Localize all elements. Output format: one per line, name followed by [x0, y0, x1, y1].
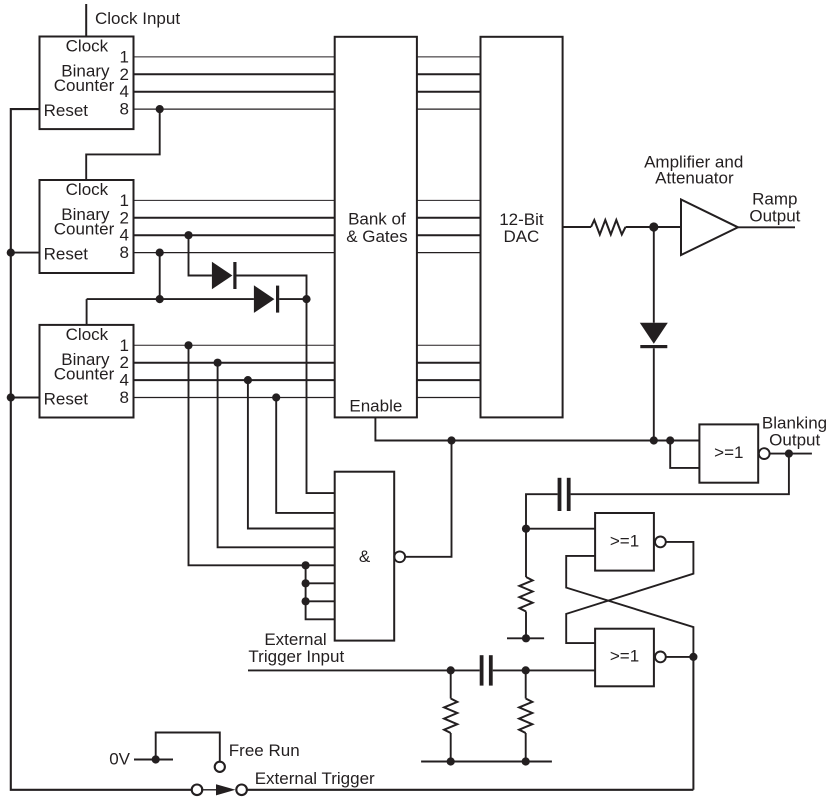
- svg-text:Output: Output: [769, 431, 820, 450]
- svg-text:12-Bit: 12-Bit: [499, 210, 544, 229]
- svg-text:1: 1: [120, 191, 129, 210]
- svg-text:DAC: DAC: [503, 227, 539, 246]
- svg-text:Enable: Enable: [349, 397, 402, 416]
- svg-text:>=1: >=1: [714, 443, 743, 462]
- svg-text:Clock: Clock: [66, 180, 109, 199]
- svg-text:Attenuator: Attenuator: [655, 169, 734, 188]
- svg-text:Free Run: Free Run: [229, 741, 300, 760]
- svg-text:Trigger Input: Trigger Input: [248, 647, 344, 666]
- svg-text:8: 8: [120, 243, 129, 262]
- svg-text:Reset: Reset: [44, 390, 89, 409]
- svg-text:8: 8: [120, 99, 129, 118]
- svg-text:External: External: [264, 630, 326, 649]
- svg-text:Counter: Counter: [54, 76, 115, 95]
- svg-text:2: 2: [120, 353, 129, 372]
- svg-text:Counter: Counter: [54, 220, 115, 239]
- svg-text:&: &: [359, 547, 371, 566]
- svg-text:1: 1: [120, 47, 129, 66]
- svg-text:Ramp: Ramp: [752, 189, 797, 208]
- svg-text:0V: 0V: [109, 750, 130, 769]
- svg-text:Clock Input: Clock Input: [95, 9, 180, 28]
- svg-text:4: 4: [120, 82, 129, 101]
- svg-text:2: 2: [120, 65, 129, 84]
- svg-text:Output: Output: [749, 207, 800, 226]
- svg-text:Clock: Clock: [66, 325, 109, 344]
- svg-text:Reset: Reset: [44, 101, 89, 120]
- svg-text:8: 8: [120, 388, 129, 407]
- svg-text:4: 4: [120, 226, 129, 245]
- svg-text:External Trigger: External Trigger: [255, 769, 375, 788]
- svg-text:1: 1: [120, 336, 129, 355]
- svg-text:2: 2: [120, 208, 129, 227]
- svg-text:4: 4: [120, 371, 129, 390]
- svg-text:>=1: >=1: [610, 532, 639, 551]
- svg-text:Clock: Clock: [66, 37, 109, 56]
- svg-text:Blanking: Blanking: [762, 413, 827, 432]
- svg-text:Reset: Reset: [44, 245, 89, 264]
- svg-text:>=1: >=1: [610, 647, 639, 666]
- svg-text:Bank of: Bank of: [348, 209, 406, 228]
- svg-text:Counter: Counter: [54, 365, 115, 384]
- svg-text:& Gates: & Gates: [346, 227, 407, 246]
